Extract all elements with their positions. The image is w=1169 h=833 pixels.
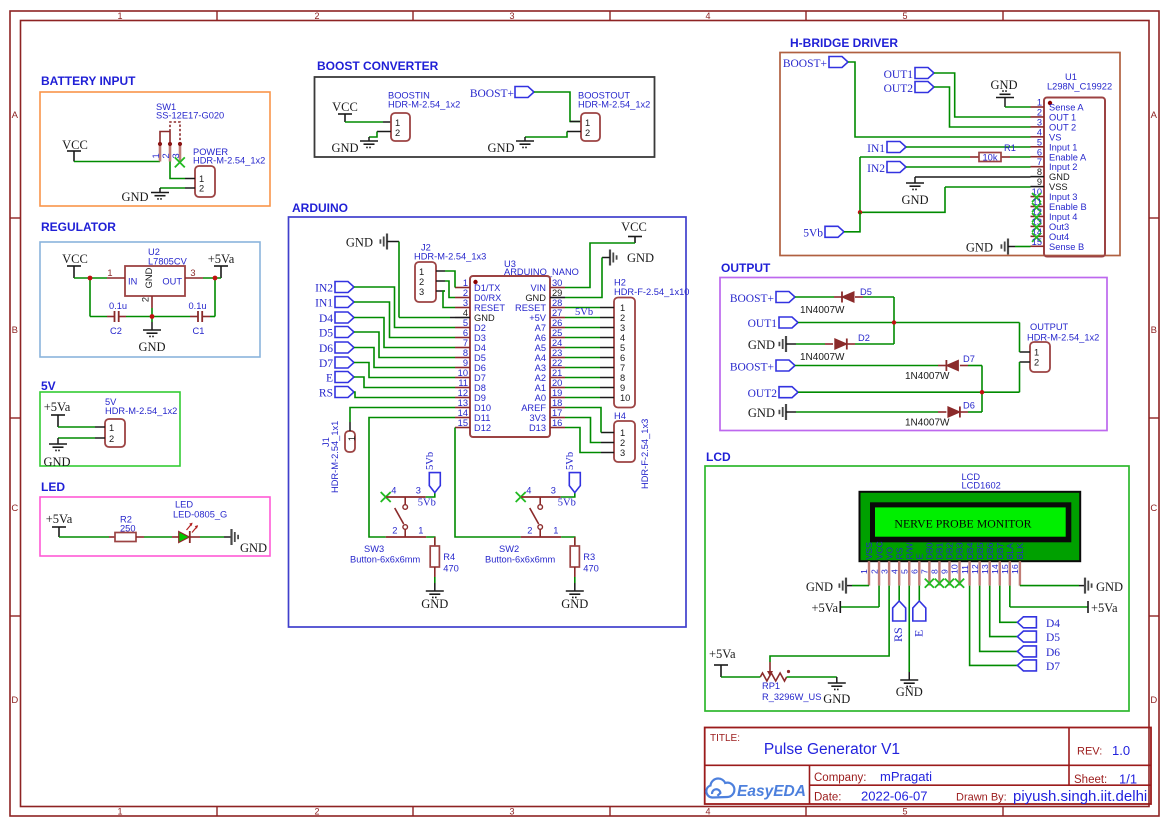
svg-text:LED: LED: [41, 480, 65, 494]
svg-text:VSS: VSS: [1049, 182, 1068, 192]
svg-text:+5Va: +5Va: [46, 512, 73, 526]
svg-text:GND: GND: [990, 78, 1017, 92]
svg-text:LCD: LCD: [706, 450, 731, 464]
svg-text:LED: LED: [175, 500, 193, 510]
svg-text:H4: H4: [614, 411, 626, 421]
svg-text:DB2: DB2: [945, 542, 955, 559]
svg-text:GND: GND: [487, 141, 514, 155]
svg-text:3: 3: [620, 448, 625, 458]
svg-text:470: 470: [583, 564, 599, 574]
svg-text:+5V: +5V: [529, 313, 547, 323]
svg-text:IN1: IN1: [867, 143, 885, 155]
svg-text:D2: D2: [474, 323, 486, 333]
svg-text:D6: D6: [319, 343, 333, 355]
svg-text:2: 2: [392, 526, 397, 536]
svg-text:19: 19: [552, 388, 562, 398]
svg-text:Pulse Generator V1: Pulse Generator V1: [764, 741, 900, 758]
svg-text:RS: RS: [891, 627, 905, 642]
svg-text:4: 4: [1037, 127, 1042, 137]
svg-text:GND: GND: [240, 541, 267, 555]
svg-text:VO: VO: [884, 547, 894, 560]
svg-text:E: E: [326, 373, 333, 385]
svg-text:REV:: REV:: [1077, 746, 1102, 758]
svg-text:GND: GND: [748, 406, 775, 420]
svg-text:GND: GND: [823, 692, 850, 706]
svg-text:5Vb: 5Vb: [565, 452, 576, 470]
svg-text:+5Va: +5Va: [709, 647, 736, 661]
svg-text:15: 15: [1032, 237, 1042, 247]
svg-text:SW2: SW2: [499, 544, 519, 554]
svg-text:B: B: [12, 325, 18, 336]
svg-text:RESET: RESET: [515, 303, 546, 313]
svg-text:+5Va: +5Va: [208, 252, 235, 266]
svg-text:R/W: R/W: [904, 542, 914, 560]
svg-text:D3: D3: [474, 333, 486, 343]
svg-text:U2: U2: [148, 247, 160, 257]
svg-text:27: 27: [552, 308, 562, 318]
svg-text:9: 9: [620, 383, 625, 393]
svg-text:IN2: IN2: [867, 163, 885, 175]
svg-text:6: 6: [910, 569, 920, 574]
svg-text:11: 11: [960, 565, 970, 574]
svg-text:1: 1: [347, 436, 357, 441]
svg-text:R4: R4: [443, 552, 455, 562]
svg-text:0.1u: 0.1u: [109, 301, 127, 311]
svg-text:H2: H2: [614, 278, 626, 288]
svg-text:12: 12: [970, 564, 980, 574]
svg-text:1: 1: [419, 267, 424, 277]
svg-text:13: 13: [1032, 217, 1042, 227]
svg-text:D4: D4: [319, 313, 333, 325]
svg-text:15: 15: [458, 418, 468, 428]
svg-text:HDR-M-2.54_1x2: HDR-M-2.54_1x2: [578, 100, 650, 110]
svg-text:Input 3: Input 3: [1049, 192, 1077, 202]
svg-text:OUT 2: OUT 2: [1049, 122, 1076, 132]
svg-text:4: 4: [463, 308, 468, 318]
svg-text:D5: D5: [860, 287, 872, 297]
svg-text:E: E: [915, 554, 925, 560]
svg-text:3: 3: [509, 807, 514, 817]
svg-text:D6: D6: [1046, 647, 1060, 659]
svg-text:21: 21: [552, 368, 562, 378]
svg-text:RP1: RP1: [762, 681, 780, 691]
svg-text:+5Va: +5Va: [44, 400, 71, 414]
svg-text:22: 22: [552, 358, 562, 368]
svg-text:A5: A5: [535, 343, 546, 353]
svg-text:A7: A7: [535, 323, 546, 333]
svg-text:D2: D2: [858, 333, 870, 343]
svg-text:5Vb: 5Vb: [803, 228, 823, 240]
svg-text:5Vb: 5Vb: [575, 307, 593, 318]
svg-text:5Vb: 5Vb: [418, 498, 436, 509]
svg-text:18: 18: [552, 398, 562, 408]
svg-text:3: 3: [416, 486, 421, 496]
svg-text:7: 7: [1037, 157, 1042, 167]
svg-text:HDR-M-2.54_1x3: HDR-M-2.54_1x3: [414, 252, 486, 262]
svg-text:1/1: 1/1: [1119, 772, 1137, 787]
svg-text:RESET: RESET: [474, 303, 505, 313]
svg-text:D13: D13: [529, 423, 546, 433]
svg-text:0.1u: 0.1u: [189, 301, 207, 311]
svg-text:1: 1: [418, 526, 423, 536]
svg-text:+5Va: +5Va: [1091, 601, 1118, 615]
svg-text:3: 3: [551, 486, 556, 496]
svg-text:1: 1: [395, 118, 400, 128]
svg-text:5Vb: 5Vb: [558, 498, 576, 509]
svg-text:EasyEDA: EasyEDA: [737, 783, 806, 800]
svg-text:GND: GND: [966, 241, 993, 255]
svg-text:GND: GND: [43, 455, 70, 469]
svg-text:Sense B: Sense B: [1049, 242, 1084, 252]
svg-text:A0: A0: [535, 393, 546, 403]
svg-text:10: 10: [1032, 187, 1042, 197]
svg-text:IN2: IN2: [315, 283, 333, 295]
svg-text:3: 3: [509, 11, 514, 21]
svg-text:U1: U1: [1065, 72, 1077, 82]
svg-text:1: 1: [585, 118, 590, 128]
svg-text:20: 20: [552, 378, 562, 388]
svg-text:LED-0805_G: LED-0805_G: [173, 510, 227, 520]
svg-text:HDR-F-2.54_1x3: HDR-F-2.54_1x3: [640, 419, 650, 489]
svg-text:Enable B: Enable B: [1049, 202, 1087, 212]
svg-text:SW3: SW3: [364, 544, 384, 554]
svg-text:1: 1: [1034, 348, 1039, 358]
svg-text:17: 17: [552, 408, 562, 418]
svg-text:D6: D6: [963, 401, 975, 411]
svg-text:2: 2: [419, 277, 424, 287]
svg-text:piyush.singh.iit.delhi: piyush.singh.iit.delhi: [1013, 788, 1147, 805]
svg-text:D6: D6: [474, 363, 486, 373]
svg-text:GND: GND: [331, 141, 358, 155]
svg-text:BOOST+: BOOST+: [470, 88, 514, 100]
svg-text:VSS: VSS: [864, 542, 874, 560]
svg-text:ARDUINO: ARDUINO: [292, 201, 348, 215]
svg-text:Company:: Company:: [814, 772, 866, 784]
svg-text:L7805CV: L7805CV: [148, 257, 188, 267]
svg-text:2: 2: [1034, 358, 1039, 368]
svg-text:250: 250: [120, 524, 136, 534]
svg-text:DB3: DB3: [955, 542, 965, 559]
svg-text:3: 3: [1037, 117, 1042, 127]
svg-text:9: 9: [940, 569, 950, 574]
svg-text:25: 25: [552, 328, 562, 338]
svg-text:GND: GND: [138, 340, 165, 354]
svg-text:LCD1602: LCD1602: [962, 481, 1001, 491]
svg-text:Out3: Out3: [1049, 222, 1069, 232]
svg-text:HDR-M-2.54_1x2: HDR-M-2.54_1x2: [388, 100, 460, 110]
svg-text:Enable A: Enable A: [1049, 152, 1087, 162]
svg-text:D5: D5: [474, 353, 486, 363]
svg-text:VCC: VCC: [874, 541, 884, 559]
svg-text:BOOST CONVERTER: BOOST CONVERTER: [317, 59, 439, 73]
svg-text:H-BRIDGE DRIVER: H-BRIDGE DRIVER: [790, 36, 898, 50]
svg-text:5Vb: 5Vb: [425, 452, 436, 470]
svg-text:DB7: DB7: [995, 542, 1005, 559]
svg-text:DB1: DB1: [935, 542, 945, 559]
svg-text:VIN: VIN: [531, 283, 547, 293]
svg-text:TITLE:: TITLE:: [710, 733, 740, 744]
svg-text:D7: D7: [963, 354, 975, 364]
svg-text:13: 13: [458, 398, 468, 408]
svg-text:3: 3: [463, 298, 468, 308]
svg-text:IN: IN: [128, 277, 137, 287]
svg-text:HDR-M-2.54_1x1: HDR-M-2.54_1x1: [330, 421, 340, 493]
svg-text:BLK: BLK: [1015, 543, 1025, 560]
svg-text:4: 4: [526, 486, 531, 496]
svg-text:3V3: 3V3: [529, 413, 546, 423]
svg-text:GND: GND: [121, 190, 148, 204]
svg-text:DB4: DB4: [965, 542, 975, 559]
svg-text:OUT1: OUT1: [748, 318, 778, 330]
svg-text:1: 1: [620, 428, 625, 438]
svg-text:C: C: [1150, 503, 1157, 514]
svg-text:HDR-M-2.54_1x2: HDR-M-2.54_1x2: [193, 156, 265, 166]
svg-text:GND: GND: [1096, 580, 1123, 594]
svg-text:5: 5: [620, 343, 625, 353]
svg-text:D10: D10: [474, 403, 491, 413]
svg-text:24: 24: [552, 338, 562, 348]
svg-text:8: 8: [620, 373, 625, 383]
svg-text:D7: D7: [1046, 661, 1060, 673]
svg-text:28: 28: [552, 298, 562, 308]
svg-text:2022-06-07: 2022-06-07: [861, 789, 928, 804]
svg-text:4: 4: [620, 333, 625, 343]
svg-text:mPragati: mPragati: [880, 769, 932, 784]
svg-text:30: 30: [552, 278, 562, 288]
svg-text:1N4007W: 1N4007W: [800, 305, 845, 316]
svg-text:D: D: [1150, 695, 1157, 706]
svg-text:OUT2: OUT2: [748, 388, 778, 400]
svg-text:2: 2: [1037, 107, 1042, 117]
svg-text:BOOST+: BOOST+: [730, 293, 774, 305]
svg-text:OUT 1: OUT 1: [1049, 112, 1076, 122]
svg-text:12: 12: [458, 388, 468, 398]
svg-text:470: 470: [443, 564, 459, 574]
svg-text:GND: GND: [346, 236, 373, 250]
svg-text:1: 1: [553, 526, 558, 536]
svg-text:10k: 10k: [983, 152, 998, 162]
svg-text:A2: A2: [535, 373, 546, 383]
svg-text:4: 4: [705, 11, 710, 21]
svg-text:NERVE PROBE MONITOR: NERVE PROBE MONITOR: [894, 517, 1031, 531]
svg-text:14: 14: [990, 564, 1000, 574]
svg-text:10: 10: [620, 393, 630, 403]
svg-text:C1: C1: [193, 326, 205, 336]
svg-text:4: 4: [391, 486, 396, 496]
svg-text:2: 2: [161, 153, 171, 158]
svg-text:GND: GND: [525, 293, 546, 303]
svg-text:AREF: AREF: [521, 403, 546, 413]
svg-text:R1: R1: [1004, 143, 1016, 153]
svg-text:RS: RS: [319, 388, 333, 400]
svg-text:1: 1: [1037, 98, 1042, 108]
svg-text:IN1: IN1: [315, 298, 333, 310]
svg-text:2: 2: [109, 434, 114, 444]
svg-text:DB0: DB0: [925, 542, 935, 559]
svg-text:5: 5: [1037, 137, 1042, 147]
svg-text:7: 7: [620, 363, 625, 373]
svg-text:9: 9: [1037, 177, 1042, 187]
svg-text:13: 13: [980, 564, 990, 574]
svg-text:VS: VS: [1049, 132, 1061, 142]
svg-text:+5Va: +5Va: [812, 601, 839, 615]
svg-text:1: 1: [859, 569, 869, 574]
svg-text:BLA: BLA: [1005, 543, 1015, 560]
svg-text:Input 4: Input 4: [1049, 212, 1077, 222]
svg-text:A: A: [12, 110, 19, 121]
svg-text:14: 14: [458, 408, 468, 418]
svg-text:Button-6x6x6mm: Button-6x6x6mm: [485, 555, 556, 565]
svg-text:2: 2: [620, 438, 625, 448]
svg-text:7: 7: [920, 569, 930, 574]
svg-text:D: D: [11, 695, 18, 706]
svg-text:C: C: [11, 503, 18, 514]
svg-text:8: 8: [463, 348, 468, 358]
svg-text:D4: D4: [474, 343, 486, 353]
svg-text:Sense A: Sense A: [1049, 103, 1084, 113]
svg-text:8: 8: [930, 569, 940, 574]
svg-text:6: 6: [620, 353, 625, 363]
svg-text:L298N_C19922: L298N_C19922: [1047, 82, 1112, 92]
svg-text:1: 1: [107, 268, 112, 278]
svg-text:GND: GND: [561, 597, 588, 611]
svg-text:3: 3: [620, 323, 625, 333]
svg-text:BOOST+: BOOST+: [730, 362, 774, 374]
svg-text:2: 2: [199, 184, 204, 194]
svg-text:5: 5: [463, 318, 468, 328]
svg-text:R_3296W_US: R_3296W_US: [762, 692, 821, 702]
svg-text:4: 4: [705, 807, 710, 817]
svg-text:VCC: VCC: [621, 220, 647, 234]
svg-text:A3: A3: [535, 363, 546, 373]
svg-text:23: 23: [552, 348, 562, 358]
svg-text:D11: D11: [474, 413, 490, 423]
svg-text:Input 1: Input 1: [1049, 142, 1077, 152]
svg-text:C2: C2: [110, 326, 122, 336]
svg-text:1: 1: [117, 807, 122, 817]
svg-text:2: 2: [314, 11, 319, 21]
svg-text:D4: D4: [1046, 618, 1060, 630]
svg-text:1: 1: [117, 11, 122, 21]
svg-text:OUT: OUT: [162, 277, 182, 287]
svg-text:16: 16: [1010, 564, 1020, 574]
svg-text:7: 7: [463, 338, 468, 348]
svg-text:HDR-F-2.54_1x10: HDR-F-2.54_1x10: [614, 287, 689, 297]
svg-text:10: 10: [950, 564, 960, 574]
svg-text:1: 1: [463, 278, 468, 288]
svg-text:DB6: DB6: [985, 542, 995, 559]
svg-text:RS: RS: [894, 547, 904, 559]
svg-text:GND: GND: [896, 685, 923, 699]
svg-text:GND: GND: [421, 597, 448, 611]
svg-text:HDR-M-2.54_1x2: HDR-M-2.54_1x2: [105, 406, 177, 416]
svg-text:1N4007W: 1N4007W: [905, 371, 950, 382]
svg-text:9: 9: [463, 358, 468, 368]
svg-text:VCC: VCC: [62, 252, 88, 266]
svg-text:3: 3: [190, 268, 195, 278]
svg-text:OUT1: OUT1: [884, 69, 914, 81]
svg-text:3: 3: [879, 569, 889, 574]
svg-text:16: 16: [552, 418, 562, 428]
svg-text:Drawn By:: Drawn By:: [956, 792, 1007, 804]
svg-text:14: 14: [1032, 227, 1042, 237]
svg-text:BATTERY INPUT: BATTERY INPUT: [41, 74, 136, 88]
svg-text:2: 2: [395, 128, 400, 138]
svg-text:OUT2: OUT2: [884, 83, 914, 95]
svg-text:2: 2: [527, 526, 532, 536]
svg-text:OUTPUT: OUTPUT: [721, 261, 771, 275]
svg-text:2: 2: [141, 297, 151, 302]
svg-text:10: 10: [458, 368, 468, 378]
svg-text:12: 12: [1032, 207, 1042, 217]
svg-text:A6: A6: [535, 333, 546, 343]
svg-text:Date:: Date:: [814, 792, 842, 804]
svg-text:GND: GND: [748, 338, 775, 352]
svg-text:GND: GND: [144, 267, 154, 288]
svg-text:5: 5: [902, 807, 907, 817]
svg-text:2: 2: [620, 313, 625, 323]
svg-text:2: 2: [463, 288, 468, 298]
svg-text:5V: 5V: [41, 379, 56, 393]
svg-text:6: 6: [463, 328, 468, 338]
svg-text:8: 8: [1037, 167, 1042, 177]
svg-text:Input 2: Input 2: [1049, 162, 1077, 172]
svg-text:4: 4: [889, 569, 899, 574]
svg-text:GND: GND: [474, 313, 495, 323]
svg-text:2: 2: [869, 569, 879, 574]
svg-text:D9: D9: [474, 393, 486, 403]
svg-text:D12: D12: [474, 423, 491, 433]
svg-text:D8: D8: [474, 383, 486, 393]
svg-text:1: 1: [620, 303, 625, 313]
svg-text:BOOST+: BOOST+: [783, 58, 827, 70]
svg-text:VCC: VCC: [62, 138, 88, 152]
svg-text:15: 15: [1000, 564, 1010, 574]
svg-text:D7: D7: [474, 373, 486, 383]
svg-text:GND: GND: [901, 193, 928, 207]
svg-text:1.0: 1.0: [1112, 743, 1130, 758]
svg-text:D5: D5: [1046, 632, 1060, 644]
svg-text:A: A: [1151, 110, 1158, 121]
svg-text:E: E: [911, 630, 925, 637]
svg-text:A1: A1: [535, 383, 546, 393]
svg-text:D0/RX: D0/RX: [474, 293, 501, 303]
svg-text:HDR-M-2.54_1x2: HDR-M-2.54_1x2: [1027, 333, 1099, 343]
svg-text:2: 2: [585, 128, 590, 138]
svg-text:A4: A4: [535, 353, 546, 363]
svg-text:OUTPUT: OUTPUT: [1030, 322, 1069, 332]
svg-text:B: B: [1151, 325, 1157, 336]
svg-text:Button-6x6x6mm: Button-6x6x6mm: [350, 555, 421, 565]
svg-text:R3: R3: [583, 552, 595, 562]
svg-text:1N4007W: 1N4007W: [800, 352, 845, 363]
svg-text:Out4: Out4: [1049, 232, 1069, 242]
svg-text:D1/TX: D1/TX: [474, 283, 500, 293]
svg-text:DB5: DB5: [975, 542, 985, 559]
svg-text:1: 1: [199, 174, 204, 184]
svg-text:Sheet:: Sheet:: [1074, 774, 1107, 786]
svg-text:VCC: VCC: [332, 100, 358, 114]
svg-text:1: 1: [151, 153, 161, 158]
svg-text:D5: D5: [319, 328, 333, 340]
svg-text:D7: D7: [319, 358, 333, 370]
svg-text:5: 5: [899, 569, 909, 574]
svg-text:11: 11: [458, 378, 468, 388]
svg-text:1N4007W: 1N4007W: [905, 418, 950, 429]
svg-text:SS-12E17-G020: SS-12E17-G020: [156, 111, 224, 121]
svg-text:GND: GND: [1049, 172, 1070, 182]
svg-text:5: 5: [902, 11, 907, 21]
